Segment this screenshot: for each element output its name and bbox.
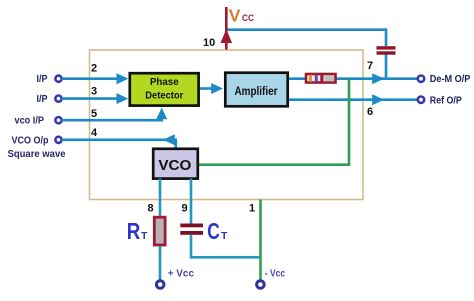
terminal De-M O/P: [418, 76, 424, 82]
resistor RT: [154, 217, 165, 245]
svg-text:vco I/P: vco I/P: [15, 116, 45, 127]
svg-text:Detector: Detector: [145, 90, 183, 102]
IC boundary box: [90, 50, 364, 200]
wire amplifier output to Ref O/P pin 6: [289, 94, 417, 105]
svg-text:De-M O/P: De-M O/P: [430, 73, 471, 85]
wire RT to +Vcc terminal: [159, 246, 162, 280]
capacitor C1 (Vcc decoupling): [377, 46, 396, 55]
svg-text:+ Vcc: + Vcc: [168, 267, 194, 279]
svg-text:Phase: Phase: [150, 76, 179, 88]
VCO block: [153, 149, 198, 179]
svg-text:- Vcc: - Vcc: [265, 267, 285, 279]
svg-text:I/P: I/P: [37, 94, 48, 105]
svg-text:Square wave: Square wave: [8, 148, 66, 160]
svg-text:9: 9: [182, 203, 188, 215]
wire capacitor to De-M node (pin 7): [385, 55, 388, 79]
wire vco input pin 5 into phase detector bottom: [62, 108, 168, 121]
wire amplifier to VCO (feedback, green): [199, 80, 350, 165]
Amplifier block: [225, 73, 287, 107]
svg-text:Amplifier: Amplifier: [235, 86, 278, 98]
wire pin 1 to -Vcc terminal (green): [259, 200, 262, 281]
svg-text:C: C: [207, 218, 220, 244]
svg-text:R: R: [127, 218, 141, 244]
svg-text:1: 1: [249, 203, 255, 215]
Vcc supply line pin 10: [221, 7, 233, 50]
wire input pin 3: [62, 93, 129, 104]
svg-text:3: 3: [91, 86, 97, 98]
wire VCO pin 9 to capacitor CT: [190, 179, 193, 224]
svg-text:V: V: [229, 5, 241, 25]
terminal I/P pin 3: [55, 96, 61, 102]
svg-text:CC: CC: [242, 13, 254, 24]
terminal Ref O/P: [418, 97, 424, 103]
wire CT to -Vcc node: [191, 235, 259, 257]
svg-text:T: T: [221, 230, 228, 242]
svg-text:6: 6: [367, 106, 373, 118]
svg-text:4: 4: [91, 127, 98, 139]
svg-text:T: T: [141, 230, 148, 242]
wire Vcc to decoupling capacitor: [226, 30, 386, 46]
svg-text:2: 2: [91, 63, 97, 75]
svg-text:I/P: I/P: [37, 74, 48, 85]
resistor R1 (amplifier output series): [306, 74, 336, 84]
wire input pin 2: [62, 73, 129, 84]
wire phase detector to amplifier: [200, 83, 223, 94]
svg-text:8: 8: [148, 203, 154, 215]
svg-text:7: 7: [367, 60, 373, 72]
wire VCO pin 8 to resistor RT: [159, 179, 162, 217]
Phase Detector block: [130, 73, 199, 105]
terminal +Vcc: [156, 281, 164, 289]
terminal I/P pin 2: [55, 76, 61, 82]
terminal VCO O/p pin 4: [55, 137, 61, 143]
svg-text:VCO: VCO: [158, 158, 191, 174]
svg-text:VCO O/p: VCO O/p: [12, 135, 49, 146]
wire amplifier output to De-M O/P pin 7: [289, 73, 417, 84]
svg-text:5: 5: [91, 108, 97, 120]
terminal vco I/P pin 5: [55, 117, 61, 123]
terminal -Vcc: [257, 281, 265, 289]
svg-text:10: 10: [203, 37, 215, 49]
svg-text:Ref O/P: Ref O/P: [430, 94, 462, 106]
wire VCO output to pin 4 terminal: [62, 134, 176, 148]
capacitor CT: [180, 224, 203, 235]
